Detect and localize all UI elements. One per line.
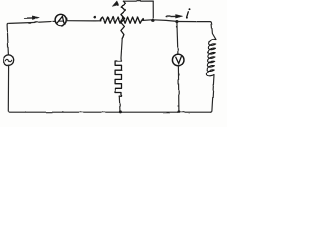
current arrow (left): [25, 17, 34, 19]
node (middle branch bottom): [119, 110, 122, 113]
wire meander to bottom: [118, 96, 121, 112]
resistor R2 (vertical meander): [115, 61, 121, 96]
resistor R1 (horizontal, rheostat body): [100, 17, 143, 23]
wire middle branch: zigzag to meander: [121, 39, 122, 61]
voltmeter V1: [172, 54, 184, 66]
node (voltmeter top junction): [175, 20, 178, 23]
wire voltmeter branch lower: [177, 66, 180, 112]
wire node to voltmeter junction: [153, 20, 178, 22]
wiper arrowhead: [112, 1, 119, 7]
wire ammeter to rheostat: [66, 20, 101, 22]
label V (voltmeter): [176, 57, 182, 64]
node (voltmeter branch bottom): [177, 110, 180, 113]
node (junction dot after resistor): [152, 19, 155, 22]
inductor L1 (coil): [207, 39, 216, 75]
wire bottom: [10, 111, 211, 113]
label A (ammeter): [57, 16, 64, 23]
current arrow i (right): [166, 15, 176, 17]
wire to top-right corner: [178, 22, 216, 40]
wire wiper top to right: [123, 0, 153, 2]
wire resistor to node: [142, 19, 154, 22]
wire coil to bottom-right corner: [211, 75, 215, 113]
wire left vertical top segment: [7, 23, 8, 55]
node at rheostat left terminal: [94, 16, 97, 19]
wire voltmeter branch upper: [177, 22, 178, 55]
wire left vertical bottom segment: [8, 65, 9, 112]
wire tap down to node: [152, 1, 154, 20]
wire top-left to ammeter: [9, 21, 55, 23]
ammeter A1: [55, 14, 66, 25]
label i (current): [187, 8, 191, 18]
rheostat wiper zigzag (vertical through resistor): [121, 1, 126, 39]
AC source: [3, 55, 13, 65]
